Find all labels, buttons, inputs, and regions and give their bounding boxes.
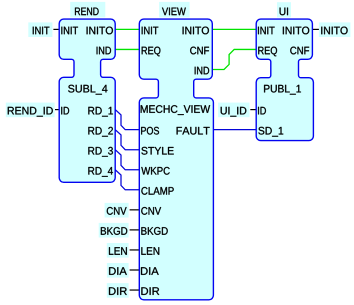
text port SUBL_4.RD_2 (88, 127, 113, 137)
text port REND.INITO (87, 27, 113, 35)
label background UI title (277, 2, 291, 17)
wire SUBL_4.RD_2 to MECHC_VIEW.STYLE (115, 130, 139, 150)
text port MECHC_VIEW.POS (141, 127, 159, 135)
text port MECHC_VIEW.CLAMP (141, 187, 173, 195)
text port MECHC_VIEW.DIA (141, 267, 159, 275)
label background REND_ID label (6, 103, 55, 118)
text port UI.INITO (283, 27, 309, 35)
wire tick REND_ID label to SUBL_4.ID (55, 109, 59, 111)
wire tick CNV label to MECHC_VIEW.CNV (130, 209, 140, 211)
text title MECHC_VIEW (141, 105, 210, 115)
text label CNV (107, 207, 127, 215)
text port MECHC_VIEW.STYLE (141, 147, 173, 155)
text title SUBL_4 (68, 85, 107, 95)
text port MECHC_VIEW.LEN (141, 247, 159, 255)
text port VIEW.REQ (142, 47, 161, 57)
text port PUBL_1.ID (258, 107, 266, 115)
text port UI.INIT (258, 27, 275, 35)
text port SUBL_4.RD_1 (88, 107, 113, 117)
wire tick INIT label to REND (53, 28, 59, 30)
text port MECHC_VIEW.CNV (141, 207, 161, 215)
text label INIT (33, 27, 50, 35)
text label UI_ID (221, 107, 247, 117)
wire SUBL_4.RD_3 to MECHC_VIEW.WKPC (115, 150, 139, 170)
text label REND_ID (8, 107, 53, 117)
label background REND title (70, 2, 105, 18)
text port MECHC_VIEW.BKGD (141, 227, 167, 235)
wire tick LEN label to MECHC_VIEW.LEN (130, 249, 140, 251)
label background DIA label (107, 263, 129, 278)
text port VIEW.CNF (190, 47, 209, 55)
text block title VIEW (162, 8, 186, 16)
wire VIEW.INITO to UI.INIT (212, 28, 256, 30)
label background CNV label (105, 203, 129, 218)
text port VIEW.INITO (183, 27, 209, 35)
wire SUBL_4.RD_4 to MECHC_VIEW.CLAMP (115, 170, 139, 190)
block UI with PUBL_1 (256, 19, 313, 141)
label background INITO label (319, 22, 351, 37)
wire tick DIA label to MECHC_VIEW.DIA (130, 269, 140, 271)
wire tick BKGD label to MECHC_VIEW.BKGD (130, 229, 140, 231)
text port REND.INIT (61, 27, 78, 35)
text port MECHC_VIEW.DIR (141, 287, 159, 295)
text port SUBL_4.RD_3 (88, 147, 113, 157)
text port MECHC_VIEW.FAULT (177, 127, 210, 135)
wire MECHC_VIEW.FAULT to PUBL_1.SD_1 (213, 129, 256, 131)
text port SUBL_4.RD_4 (88, 167, 113, 177)
text block title REND (75, 8, 99, 16)
text label DIR (109, 287, 127, 295)
text port PUBL_1.SD_1 (258, 127, 283, 137)
text port SUBL_4.ID (61, 107, 69, 115)
text port MECHC_VIEW.WKPC (141, 167, 169, 175)
wire tick UI_ID label to PUBL_1.ID (250, 109, 256, 111)
text label LEN (109, 247, 127, 255)
wire REND.INITO to VIEW.INIT (115, 28, 139, 30)
wire tick DIR label to MECHC_VIEW.DIR (130, 289, 140, 291)
text label BKGD (101, 227, 127, 235)
text port VIEW.INIT (142, 27, 159, 35)
text block title UI (280, 8, 288, 16)
text label INITO (321, 27, 347, 35)
text port UI.REQ (258, 47, 277, 57)
wire VIEW.IND to UI.REQ (212, 49, 256, 69)
text port VIEW.IND (195, 67, 209, 75)
label background LEN label (107, 243, 129, 258)
text title PUBL_1 (264, 85, 301, 95)
text label DIA (109, 267, 127, 275)
label background DIR label (107, 283, 129, 298)
block REND with SUBL_4 (59, 19, 115, 182)
label background BKGD label (99, 223, 129, 238)
label background VIEW title (159, 2, 190, 18)
block VIEW with MECHC_VIEW (139, 19, 213, 300)
text port UI.CNF (290, 47, 309, 55)
label background INIT label (28, 22, 52, 37)
wire tick UI.INITO to INITO label (312, 28, 319, 30)
wire REND.IND to VIEW.REQ (115, 48, 139, 50)
label background UI_ID label (218, 103, 249, 118)
wire SUBL_4.RD_1 to MECHC_VIEW.POS (115, 110, 139, 130)
text port REND.IND (97, 47, 111, 55)
